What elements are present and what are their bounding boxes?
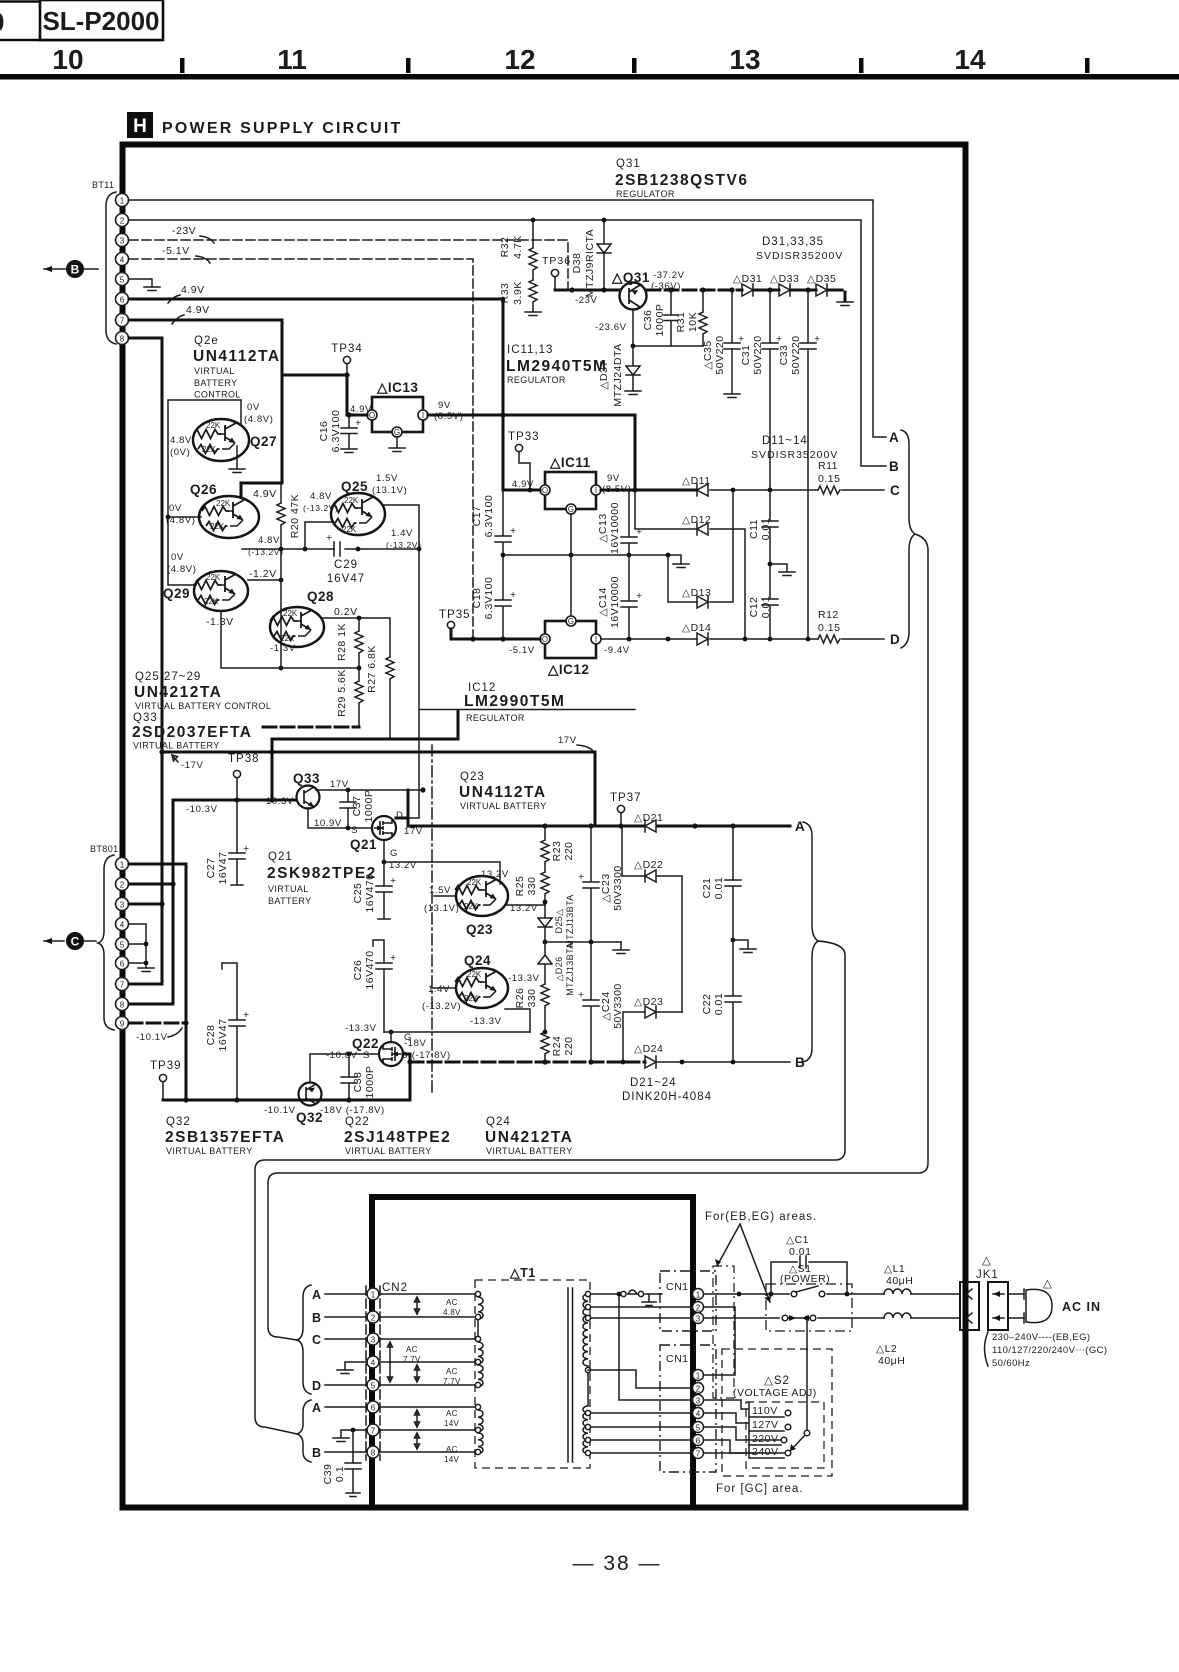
resistor R12 0.15: [818, 635, 840, 643]
svg-text:4: 4: [371, 1359, 376, 1368]
svg-text:16V47: 16V47: [217, 852, 229, 885]
svg-text:CONTROL: CONTROL: [194, 390, 241, 400]
svg-text:3: 3: [696, 1397, 701, 1406]
svg-text:A: A: [312, 1288, 322, 1302]
svg-text:R24: R24: [551, 1036, 563, 1057]
diode D11: [697, 484, 708, 496]
connector BT11 pin 4: [116, 253, 129, 266]
svg-text:BATTERY: BATTERY: [268, 896, 311, 906]
svg-text:Q32: Q32: [296, 1110, 323, 1125]
connector BT11 bracket: [106, 192, 116, 344]
wire BT801 pin2: [129, 883, 173, 886]
svg-text:△D26: △D26: [554, 956, 564, 981]
svg-text:R12: R12: [818, 609, 839, 621]
svg-text:-10.3V: -10.3V: [186, 804, 218, 815]
svg-text:4: 4: [120, 921, 125, 930]
transistor Q27: [193, 419, 249, 461]
secondary leads to CN1: [588, 1307, 692, 1318]
svg-text:2SD2037EFTA: 2SD2037EFTA: [132, 724, 252, 741]
resistor R27 6.8K: [386, 657, 394, 739]
svg-text:AC: AC: [446, 1445, 458, 1454]
capacitor C33 50V220: [800, 290, 816, 639]
svg-text:-13.3V: -13.3V: [508, 973, 540, 984]
inductor L1 40uH: [884, 1289, 911, 1294]
svg-text:MTZJ24DTA: MTZJ24DTA: [612, 343, 624, 406]
svg-text:TP34: TP34: [331, 343, 363, 355]
svg-text:Q26: Q26: [190, 482, 217, 497]
svg-text:7: 7: [120, 317, 125, 326]
svg-text:C31: C31: [740, 345, 752, 366]
svg-text:C39: C39: [322, 1464, 334, 1485]
svg-text:22K: 22K: [210, 522, 225, 531]
diode D26 MTZJ13BTA: [538, 942, 552, 984]
wire 17V / -17V heavy rail: [162, 752, 595, 826]
svg-text:3: 3: [696, 1315, 701, 1324]
svg-text:SVDISR35200V: SVDISR35200V: [756, 250, 843, 262]
svg-text:1: 1: [696, 1372, 701, 1381]
svg-text:1.4V: 1.4V: [391, 528, 413, 539]
svg-text:4.8V: 4.8V: [443, 1308, 461, 1317]
svg-text:+: +: [776, 333, 783, 345]
svg-text:16V47: 16V47: [327, 573, 365, 585]
transistor Q26: [199, 496, 259, 538]
svg-text:9: 9: [120, 1020, 125, 1029]
svg-text:2SB1357EFTA: 2SB1357EFTA: [165, 1129, 285, 1146]
svg-text:7.7V: 7.7V: [443, 1377, 461, 1386]
svg-text:R31: R31: [675, 312, 687, 333]
wire A rail (17V out): [408, 825, 790, 828]
connector CN2 pins: [367, 1288, 379, 1300]
svg-text:22K: 22K: [342, 525, 357, 534]
svg-text:+: +: [510, 589, 517, 601]
svg-text:22K: 22K: [206, 421, 221, 430]
svg-text:7: 7: [371, 1427, 376, 1436]
svg-text:△D14: △D14: [682, 622, 711, 634]
wire 17V top line: [396, 549, 635, 818]
wire -10.3V rail: [173, 799, 297, 802]
wire Q29 -1.2V: [248, 579, 281, 581]
svg-text:H: H: [133, 116, 147, 137]
svg-text:C28: C28: [205, 1025, 217, 1046]
connector BT801 pin 5: [116, 938, 129, 951]
wire BT801 pin8: [129, 1003, 173, 1006]
wire mid ground row: [503, 554, 668, 556]
wire Q23 base stub: [434, 895, 456, 897]
svg-text:△C1: △C1: [786, 1234, 809, 1246]
svg-text:6.3V100: 6.3V100: [483, 495, 495, 538]
svg-text:O: O: [542, 486, 548, 495]
wire CN2 pin7 to ground: [333, 1430, 367, 1442]
svg-text:(-13.2V): (-13.2V): [386, 540, 422, 550]
svg-text:2: 2: [371, 1314, 376, 1323]
svg-text:(-13.2V): (-13.2V): [248, 547, 284, 557]
svg-text:-23V: -23V: [575, 295, 598, 306]
wire Q21 G to Q23 collector: [384, 862, 500, 884]
resistor R25 330: [541, 872, 549, 902]
terminal C arrow: [44, 932, 96, 950]
voltage note text: [985, 1332, 989, 1366]
wire CN1 p1 AC line: [704, 1293, 960, 1295]
capacitor C39 0.1: [345, 1430, 361, 1497]
svg-text:+: +: [636, 590, 643, 602]
svg-text:0: 0: [0, 7, 4, 37]
svg-text:O: O: [542, 635, 548, 644]
wire BT11 pin4 (-5.1V) dashed: [129, 259, 473, 637]
svg-text:+: +: [510, 525, 517, 537]
wire CN1 p2 down to lower CN1 p1: [704, 1307, 735, 1375]
wire BT801 pin9 dashed: [129, 1022, 186, 1025]
svg-text:4: 4: [120, 256, 125, 265]
svg-text:D25△: D25△: [554, 908, 564, 933]
svg-text:△C35: △C35: [702, 340, 714, 369]
svg-text:22K: 22K: [280, 634, 295, 643]
svg-text:POWER SUPPLY CIRCUIT: POWER SUPPLY CIRCUIT: [162, 120, 402, 137]
svg-text:1.4V: 1.4V: [428, 984, 450, 995]
svg-text:△C14: △C14: [597, 587, 609, 616]
svg-text:50/60Hz: 50/60Hz: [992, 1358, 1030, 1369]
svg-text:VIRTUAL: VIRTUAL: [268, 884, 309, 894]
wires CN2 pins to primary: [379, 1294, 475, 1452]
zener diode D37 MTZJ24DTA: [626, 346, 640, 390]
svg-text:C26: C26: [352, 960, 364, 981]
ruler tick 11/12: [406, 58, 411, 73]
svg-text:7: 7: [120, 981, 125, 990]
EB,EG selector dash-dot box: [713, 1266, 734, 1398]
wire BT11 pin6 (4.9V): [129, 299, 503, 415]
wire Q24 base stub: [432, 987, 456, 989]
svg-text:+: +: [355, 417, 362, 429]
wire -10.1V heavy rail: [163, 1099, 410, 1102]
resistor R32 4.7K: [529, 220, 537, 280]
svg-text:S: S: [351, 825, 358, 836]
svg-text:+: +: [390, 952, 397, 964]
capacitor C13 16V10000: [621, 490, 637, 555]
diode D33: [779, 284, 790, 296]
svg-text:6: 6: [120, 960, 125, 969]
svg-text:△IC13: △IC13: [376, 380, 418, 395]
CN2 group brace upper: [297, 1285, 311, 1394]
connector BT11 pin 1: [116, 194, 129, 207]
svg-text:220: 220: [563, 1036, 575, 1055]
svg-text:BATTERY: BATTERY: [194, 378, 237, 388]
connector BT801 pin 3: [116, 898, 129, 911]
transistor Q32: [299, 1083, 322, 1106]
svg-text:AC IN: AC IN: [1062, 1300, 1101, 1314]
svg-text:SVDISR35200V: SVDISR35200V: [751, 449, 838, 461]
svg-text:△C23: △C23: [600, 873, 612, 902]
svg-text:Q33: Q33: [133, 712, 158, 724]
wire C29 row (4.8V / -13.2V): [242, 548, 419, 550]
svg-text:For [GC] area.: For [GC] area.: [716, 1483, 804, 1495]
svg-text:JK1: JK1: [976, 1269, 999, 1281]
svg-text:+: +: [814, 333, 821, 345]
svg-text:-13.3V: -13.3V: [470, 1016, 502, 1027]
connector BT11 pin 3: [116, 234, 129, 247]
svg-text:-10.8V: -10.8V: [326, 1050, 358, 1061]
capacitor C1 0.01 bypass loop: [771, 1262, 847, 1294]
svg-text:6: 6: [120, 296, 125, 305]
svg-text:+: +: [390, 875, 397, 887]
inductor L2 40uH: [884, 1313, 911, 1318]
svg-text:0.01: 0.01: [760, 596, 772, 618]
wire into IC11 O: [503, 489, 540, 492]
inner AC power box: [372, 1197, 693, 1505]
ground stub C21/C22: [731, 938, 736, 943]
svg-text:8: 8: [371, 1449, 376, 1458]
svg-text:(4.8V): (4.8V): [166, 515, 195, 526]
svg-text:C21: C21: [701, 878, 713, 899]
svg-text:R20 47K: R20 47K: [289, 494, 301, 538]
svg-text:For(EB,EG) areas.: For(EB,EG) areas.: [705, 1211, 817, 1223]
wire BT11 pin2 to terminal B: [129, 220, 886, 466]
wire BT801 pin1 (-10.1V): [129, 864, 186, 1100]
connector BT801 pin 4: [116, 918, 129, 931]
svg-text:+: +: [578, 871, 585, 883]
svg-text:△D31: △D31: [733, 273, 762, 285]
capacitor C36 1000P: [664, 290, 678, 346]
svg-text:DINK20H-4084: DINK20H-4084: [622, 1091, 712, 1103]
svg-text:△T1: △T1: [509, 1266, 536, 1280]
svg-text:VIRTUAL BATTERY: VIRTUAL BATTERY: [345, 1146, 432, 1156]
svg-text:1000P: 1000P: [364, 1066, 376, 1099]
thermal fuse on secondary top: [588, 1294, 692, 1400]
connector BT11 pin 8: [116, 332, 129, 345]
svg-text:127V: 127V: [752, 1419, 779, 1431]
svg-text:50V3300: 50V3300: [612, 983, 624, 1029]
svg-text:6: 6: [371, 1404, 376, 1413]
svg-text:MTZJ9RICTA: MTZJ9RICTA: [584, 229, 596, 297]
svg-text:-1.3V: -1.3V: [206, 616, 234, 628]
svg-text:C38: C38: [352, 1072, 364, 1093]
svg-text:△: △: [982, 1255, 992, 1267]
svg-text:220V: 220V: [752, 1433, 779, 1445]
wires lower CN1 pins to taps: [704, 1400, 748, 1409]
svg-text:SL-P2000: SL-P2000: [42, 6, 159, 36]
svg-text:5: 5: [120, 276, 125, 285]
svg-text:CN2: CN2: [382, 1282, 408, 1294]
svg-text:-18V (-17.8V): -18V (-17.8V): [320, 1105, 385, 1116]
ground at BT801 pin6: [138, 968, 154, 972]
connector BT801 pin 2: [116, 878, 129, 891]
svg-text:△C13: △C13: [597, 513, 609, 542]
transistor Q31: [620, 283, 647, 310]
connector BT801 pin 9: [116, 1017, 129, 1030]
wire secondary tap to lower CN1 p2: [588, 1370, 692, 1388]
resistor R11 0.15: [818, 486, 840, 494]
svg-text:17V: 17V: [404, 826, 423, 837]
svg-text:12: 12: [504, 44, 535, 75]
svg-text:14: 14: [954, 44, 986, 75]
svg-text:1: 1: [696, 1291, 701, 1300]
capacitor C29 16V47: [334, 542, 340, 556]
leader lines EB,EG: [717, 1224, 770, 1302]
connector BT11 pin 6: [116, 293, 129, 306]
svg-text:VIRTUAL BATTERY: VIRTUAL BATTERY: [486, 1146, 573, 1156]
svg-text:△D22: △D22: [634, 859, 663, 871]
switch S2 arm: [804, 1430, 810, 1436]
connector BT11 pin 2: [116, 214, 129, 227]
svg-text:2SB1238QSTV6: 2SB1238QSTV6: [615, 172, 748, 189]
svg-text:△D12: △D12: [682, 514, 711, 526]
svg-text:16V10000: 16V10000: [609, 502, 621, 554]
wire BT11 pin3 (-23V) dashed: [129, 240, 568, 288]
svg-text:CN1: CN1: [666, 1353, 689, 1365]
svg-text:UN4112TA: UN4112TA: [193, 348, 281, 365]
wire B rail: [410, 1061, 645, 1064]
svg-text:50V3300: 50V3300: [612, 865, 624, 911]
svg-text:△IC11: △IC11: [549, 455, 591, 470]
wire -13.3V row: [384, 1031, 530, 1033]
resistor R23 220: [541, 826, 549, 872]
svg-text:VIRTUAL BATTERY CONTROL: VIRTUAL BATTERY CONTROL: [135, 701, 271, 711]
svg-text:Q2e: Q2e: [194, 335, 219, 347]
capacitor C12 0.01: [762, 564, 778, 639]
svg-text:-1.3V: -1.3V: [270, 643, 296, 654]
diode D23 branch: [623, 1012, 682, 1062]
svg-text:7: 7: [696, 1450, 701, 1459]
svg-text:6: 6: [696, 1437, 701, 1446]
wire Q22 D to heavy rail: [403, 1054, 410, 1100]
svg-text:AC: AC: [446, 1409, 458, 1418]
svg-text:-9.4V: -9.4V: [604, 645, 630, 656]
wire pin7 node to TP34 drop: [346, 375, 349, 415]
wire 4.9V elbow into Q26: [241, 375, 282, 497]
svg-text:0.01: 0.01: [760, 518, 772, 540]
connector BT11 pin 7: [116, 314, 129, 327]
zener diode D38 MTZJ9RICTA: [597, 220, 611, 289]
svg-text:(-13.2V): (-13.2V): [303, 503, 339, 513]
capacitor C37 1000P: [340, 790, 356, 828]
svg-text:13.2V: 13.2V: [481, 869, 509, 880]
svg-text:-10.1V: -10.1V: [136, 1032, 168, 1043]
svg-text:VIRTUAL BATTERY: VIRTUAL BATTERY: [460, 801, 547, 811]
svg-text:4.9V: 4.9V: [350, 404, 372, 415]
ground stub at C11/C12: [768, 562, 773, 567]
svg-text:Q29: Q29: [163, 586, 190, 601]
svg-text:△: △: [1043, 1278, 1053, 1290]
grid ruler bar: [0, 74, 1179, 80]
svg-text:C: C: [312, 1333, 322, 1347]
svg-text:0.1: 0.1: [334, 1466, 346, 1482]
svg-text:16V470: 16V470: [364, 950, 376, 989]
svg-text:-1.2V: -1.2V: [249, 568, 277, 580]
svg-text:0.15: 0.15: [818, 473, 840, 485]
svg-text:G: G: [390, 848, 398, 859]
svg-text:D: D: [396, 810, 403, 821]
svg-text:BT801: BT801: [90, 844, 119, 854]
svg-text:TP33: TP33: [508, 431, 540, 443]
svg-text:6.3V100: 6.3V100: [330, 410, 342, 453]
wire Q33 collector corner to A rail: [396, 790, 408, 826]
connector BT801 pin 6: [116, 957, 129, 970]
transistor Q23: [455, 876, 508, 916]
transistor Q25: [331, 493, 385, 535]
svg-text:240V: 240V: [752, 1446, 779, 1458]
ground at pin5: [144, 287, 160, 291]
svg-text:50V220: 50V220: [790, 335, 802, 374]
mosfet Q22: [379, 1042, 403, 1066]
svg-text:230–240V----(EB,EG): 230–240V----(EB,EG): [992, 1332, 1090, 1343]
svg-text:10K: 10K: [687, 312, 699, 332]
capacitor C35 50V220: [724, 290, 740, 393]
op-amp regulator IC11: [540, 472, 601, 514]
svg-text:9V: 9V: [607, 473, 620, 484]
ruler tick 13/14: [859, 58, 864, 73]
svg-text:— 38 —: — 38 —: [572, 1552, 661, 1575]
svg-text:(4.8V): (4.8V): [167, 564, 196, 575]
svg-text:Q25: Q25: [341, 479, 368, 494]
svg-text:C25: C25: [352, 883, 364, 904]
svg-text:-23.6V: -23.6V: [595, 322, 627, 333]
svg-text:C16: C16: [318, 421, 330, 442]
svg-text:△Q31: △Q31: [611, 270, 650, 285]
svg-text:-23V: -23V: [172, 225, 196, 237]
svg-text:G: G: [394, 428, 400, 437]
capacitor C23 50V3300: [583, 826, 599, 942]
svg-text:△S2: △S2: [764, 1375, 790, 1387]
svg-text:17V: 17V: [330, 779, 349, 790]
diode D21: [645, 820, 656, 832]
svg-text:Q21: Q21: [350, 837, 377, 852]
wire C rail to resistor R11: [710, 489, 818, 491]
svg-text:50V220: 50V220: [714, 335, 726, 374]
section letter H badge: [127, 112, 153, 138]
svg-text:△D21: △D21: [634, 812, 663, 824]
svg-text:A: A: [312, 1401, 322, 1415]
wire BT801 pins 4,5,6 to ground: [129, 924, 146, 967]
svg-text:3: 3: [120, 901, 125, 910]
svg-text:R23: R23: [551, 841, 563, 862]
svg-text:+: +: [243, 843, 250, 855]
ground after D35: [837, 302, 853, 306]
svg-text:14V: 14V: [444, 1419, 459, 1428]
svg-text:22K: 22K: [464, 994, 479, 1003]
svg-text:3: 3: [371, 1336, 376, 1345]
wire Q28 0.2V row: [322, 618, 390, 657]
svg-text:330: 330: [526, 988, 538, 1007]
svg-text:TP38: TP38: [228, 753, 260, 765]
model label box SL-P2000: [40, 0, 163, 40]
svg-text:+: +: [738, 333, 745, 345]
ruler tick 10/11: [180, 58, 185, 73]
svg-text:(13.1V): (13.1V): [424, 903, 459, 914]
wire D13 branch: [668, 490, 733, 602]
svg-text:R25: R25: [514, 876, 526, 897]
svg-text:1: 1: [120, 197, 125, 206]
wire D12 branch: [635, 490, 745, 639]
svg-text:13: 13: [729, 44, 760, 75]
svg-text:-10.1V: -10.1V: [264, 1105, 296, 1116]
svg-text:(13.1V): (13.1V): [372, 485, 407, 496]
svg-text:D21~24: D21~24: [630, 1077, 677, 1089]
svg-text:4: 4: [696, 1410, 701, 1419]
wire AB trunk to CN2 lower group: [255, 941, 845, 1434]
svg-text:4.8V: 4.8V: [170, 435, 192, 446]
svg-text:8: 8: [120, 335, 125, 344]
ruler tick 14/15: [1085, 58, 1090, 73]
connector CN2 body dashes: [366, 1286, 380, 1460]
svg-text:B: B: [71, 263, 80, 277]
svg-text:2: 2: [696, 1304, 701, 1313]
svg-text:B: B: [889, 459, 899, 474]
capacitor C17 6.3V100: [495, 490, 511, 555]
svg-text:-37.2V: -37.2V: [653, 270, 685, 281]
svg-text:17V: 17V: [558, 735, 577, 746]
svg-text:Q24: Q24: [486, 1116, 511, 1128]
svg-text:C37: C37: [351, 796, 363, 817]
ruler tick 12/13: [632, 58, 637, 73]
svg-text:9V: 9V: [438, 400, 451, 411]
